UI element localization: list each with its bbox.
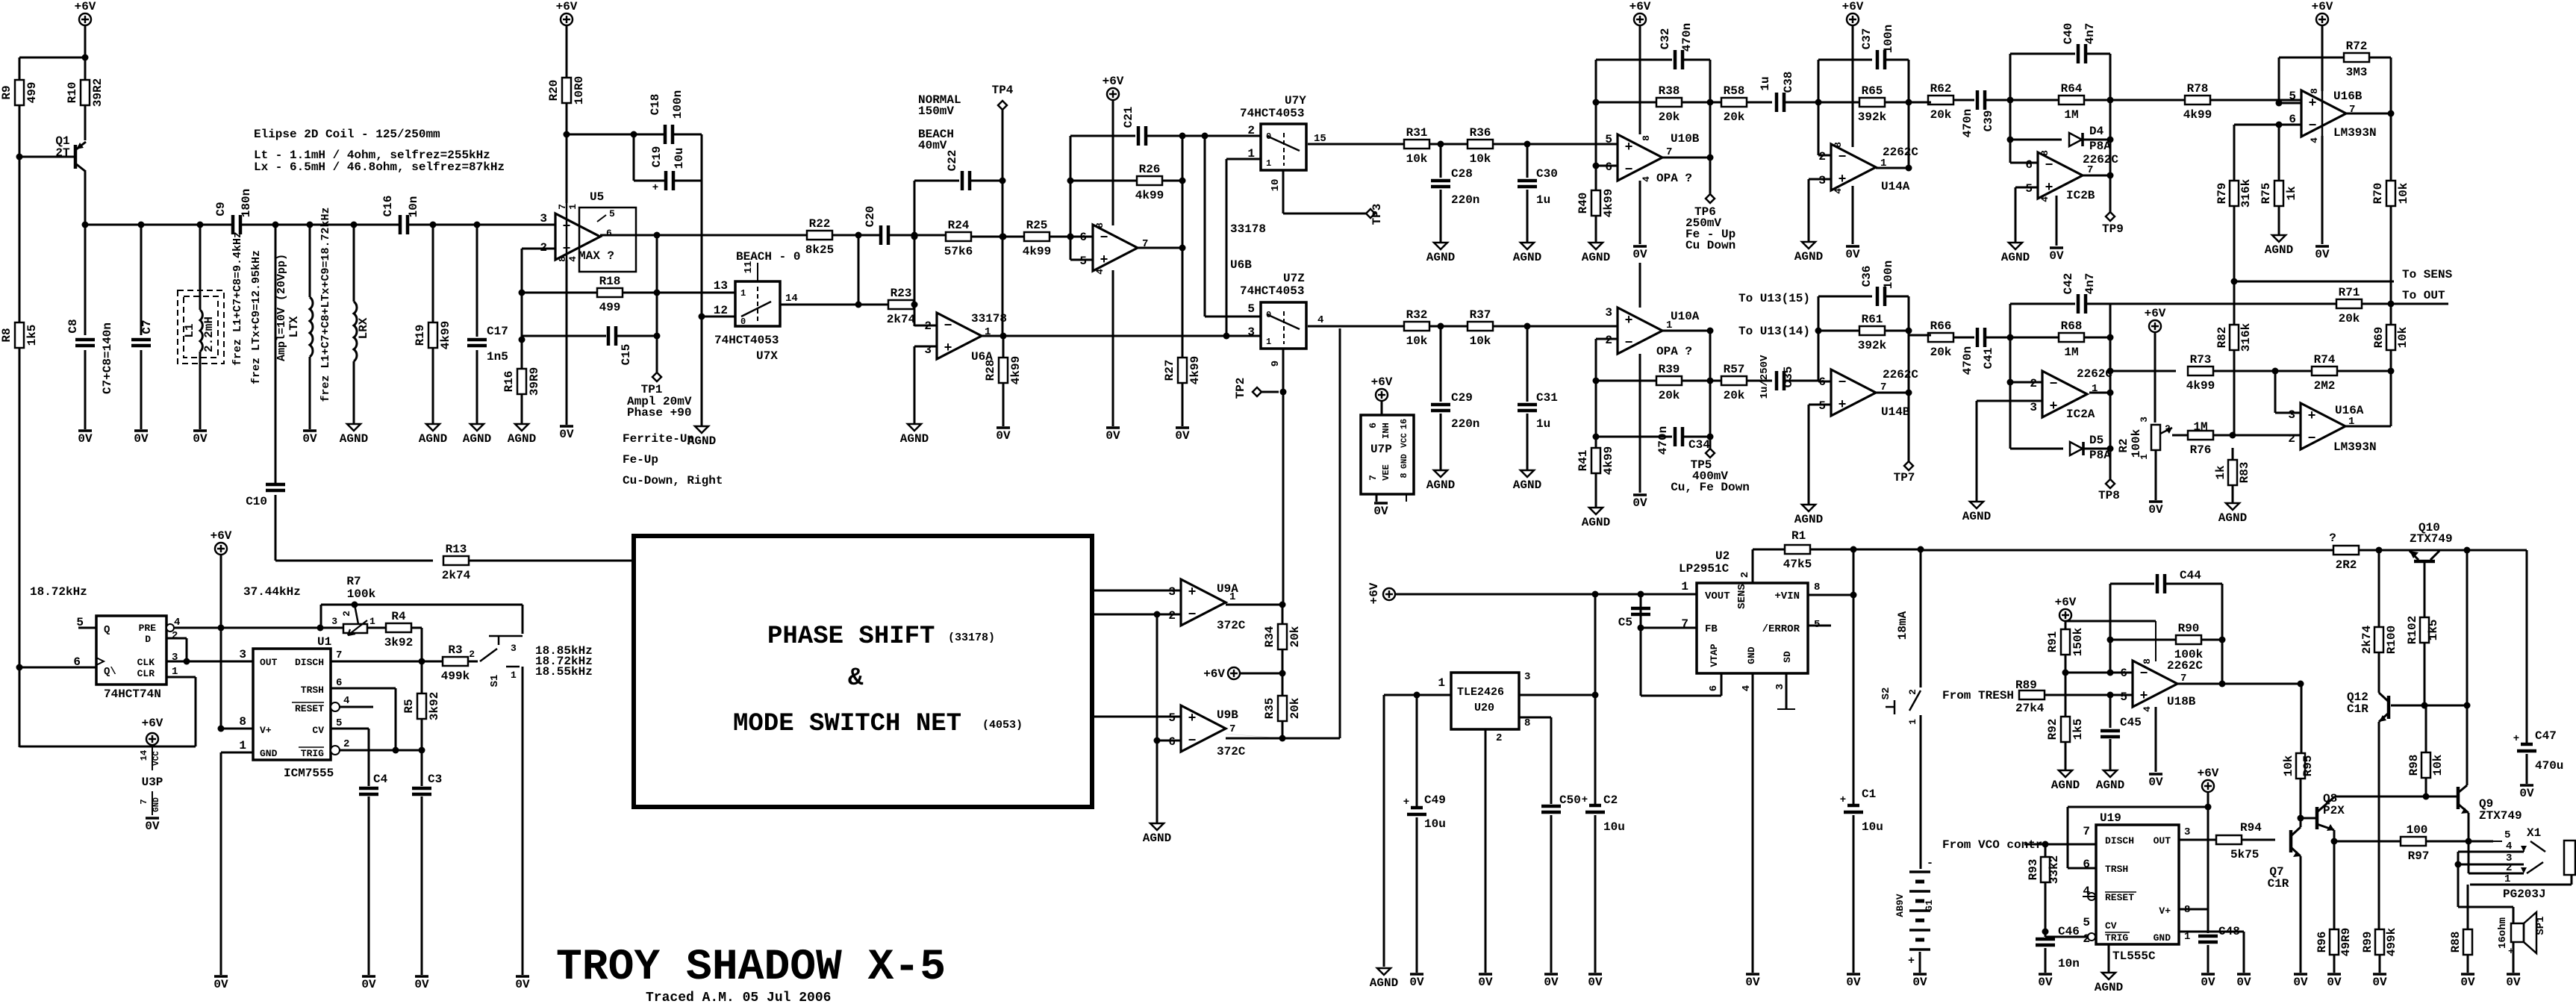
svg-text:R26: R26 (1139, 163, 1161, 176)
svg-text:470n: 470n (1961, 109, 1974, 137)
svg-text:100k: 100k (347, 587, 376, 601)
svg-text:1k5: 1k5 (2427, 620, 2440, 641)
svg-text:Ampl=10V (20Vpp): Ampl=10V (20Vpp) (275, 254, 288, 361)
svg-text:C3: C3 (428, 773, 442, 786)
svg-text:R70: R70 (2371, 183, 2385, 205)
svg-text:GND: GND (152, 797, 161, 812)
svg-text:R2: R2 (2117, 438, 2130, 452)
svg-text:0V: 0V (2148, 503, 2163, 517)
svg-text:5: 5 (2025, 182, 2033, 196)
svg-text:8: 8 (2309, 88, 2320, 94)
svg-text:1M: 1M (2064, 108, 2078, 122)
svg-text:+VIN: +VIN (1774, 590, 1800, 602)
svg-text:R102: R102 (2406, 616, 2419, 644)
svg-text:TRSH: TRSH (2105, 864, 2128, 875)
svg-text:AGND: AGND (2001, 251, 2030, 264)
svg-text:R79: R79 (2215, 183, 2229, 205)
svg-text:C5: C5 (1618, 616, 1632, 629)
svg-text:3: 3 (239, 648, 246, 661)
svg-text:AGND: AGND (1513, 251, 1541, 264)
svg-text:C31: C31 (1536, 391, 1558, 405)
svg-text:−: − (1188, 608, 1197, 623)
svg-text:5k75: 5k75 (2230, 848, 2259, 861)
svg-text:TROY SHADOW X-5: TROY SHADOW X-5 (556, 944, 946, 992)
svg-text:OPA ?: OPA ? (1656, 345, 1692, 358)
svg-text:R100: R100 (2385, 626, 2398, 654)
svg-text:R58: R58 (1724, 84, 1745, 98)
svg-text:C45: C45 (2120, 716, 2142, 729)
svg-text:3: 3 (540, 212, 547, 225)
svg-text:316k: 316k (2239, 178, 2253, 208)
svg-text:+6V: +6V (1367, 582, 1381, 604)
svg-text:U7X: U7X (756, 349, 778, 363)
svg-text:VCC: VCC (152, 751, 161, 766)
svg-text:S2: S2 (1880, 687, 1892, 700)
svg-text:+6V: +6V (556, 0, 578, 13)
svg-text:GND: GND (1746, 646, 1757, 664)
svg-text:R5: R5 (402, 699, 416, 713)
svg-text:R90: R90 (2178, 622, 2200, 635)
svg-text:R40: R40 (1577, 193, 1590, 214)
svg-text:frez L1+C7+C8=9.4kHz: frez L1+C7+C8=9.4kHz (231, 231, 244, 366)
svg-text:TRIG: TRIG (301, 748, 324, 759)
svg-text:C34: C34 (1688, 438, 1710, 452)
svg-text:GND: GND (2154, 932, 2171, 944)
svg-text:C10: C10 (246, 495, 267, 508)
svg-text:10u: 10u (673, 148, 686, 169)
svg-text:20k: 20k (1724, 389, 1745, 402)
svg-text:0V: 0V (1846, 976, 1861, 989)
svg-text:R91: R91 (2046, 632, 2059, 653)
svg-text:R20: R20 (547, 80, 561, 102)
svg-text:C18: C18 (649, 94, 662, 116)
svg-text:R61: R61 (1862, 313, 1883, 326)
svg-text:+6V: +6V (2055, 596, 2077, 609)
svg-text:+6V: +6V (1103, 75, 1124, 88)
svg-text:R35: R35 (1263, 698, 1276, 720)
svg-text:3: 3 (1247, 325, 1255, 339)
svg-text:V+: V+ (260, 725, 272, 736)
svg-text:1: 1 (1907, 719, 1918, 725)
svg-text:X1: X1 (2527, 826, 2541, 840)
svg-text:10k: 10k (1406, 152, 1428, 166)
svg-text:0V: 0V (2519, 787, 2534, 800)
svg-text:3k92: 3k92 (384, 636, 413, 649)
svg-text:6: 6 (1367, 423, 1379, 428)
svg-text:TLE2426: TLE2426 (1457, 686, 1504, 699)
svg-text:+6V: +6V (1630, 0, 1651, 13)
svg-text:1: 1 (740, 288, 746, 299)
svg-text:+: + (1840, 794, 1846, 806)
svg-text:47k5: 47k5 (1783, 558, 1812, 571)
svg-text:0V: 0V (2315, 248, 2330, 261)
svg-text:0V: 0V (213, 978, 228, 991)
svg-text:6: 6 (1708, 685, 1720, 691)
svg-text:100k: 100k (2130, 428, 2143, 458)
svg-text:−: − (2308, 431, 2316, 446)
svg-text:10k: 10k (2397, 182, 2410, 204)
svg-text:Cu-Down, Right: Cu-Down, Right (623, 474, 723, 487)
svg-text:10k: 10k (1470, 334, 1491, 348)
svg-text:5: 5 (2120, 690, 2127, 704)
svg-text:R62: R62 (1930, 82, 1952, 96)
svg-text:+6V: +6V (210, 529, 232, 543)
svg-text:R27: R27 (1163, 360, 1176, 381)
svg-text:−: − (1625, 163, 1633, 178)
svg-text:C16: C16 (381, 196, 395, 217)
svg-text:20k: 20k (1288, 626, 1302, 647)
svg-text:4: 4 (343, 695, 349, 707)
svg-text:SP1: SP1 (2535, 916, 2547, 935)
svg-text:C20: C20 (864, 206, 877, 228)
svg-text:C15: C15 (620, 344, 633, 366)
svg-text:TL555C: TL555C (2112, 950, 2156, 963)
svg-text:−: − (1839, 150, 1847, 165)
svg-text:MAX ?: MAX ? (578, 249, 614, 263)
svg-text:C36: C36 (1860, 266, 1874, 287)
svg-text:C21: C21 (1122, 107, 1135, 128)
svg-text:U14A: U14A (1881, 180, 1910, 193)
svg-text:R25: R25 (1026, 219, 1048, 232)
svg-text:U20: U20 (1474, 702, 1494, 714)
svg-text:372C: 372C (1217, 619, 1246, 632)
svg-text:8: 8 (1399, 473, 1409, 478)
svg-text:3: 3 (924, 343, 932, 357)
svg-text:2: 2 (1168, 609, 1176, 623)
svg-text:C30: C30 (1536, 167, 1558, 181)
svg-text:0V: 0V (78, 432, 93, 446)
svg-text:13: 13 (714, 279, 728, 293)
svg-text:U18B: U18B (2167, 695, 2196, 708)
svg-text:+6V: +6V (2198, 767, 2219, 780)
svg-text:3: 3 (2184, 826, 2190, 838)
svg-text:7: 7 (1229, 723, 1235, 735)
svg-text:C44: C44 (2180, 569, 2201, 582)
svg-text:8: 8 (1524, 717, 1530, 729)
svg-text:4n7: 4n7 (2083, 273, 2097, 295)
svg-text:470u: 470u (2535, 759, 2563, 773)
svg-text:DISCH: DISCH (295, 657, 324, 668)
svg-text:4: 4 (1641, 176, 1652, 182)
svg-text:R7: R7 (346, 575, 361, 588)
svg-text:8: 8 (1641, 135, 1652, 141)
svg-text:5: 5 (609, 208, 615, 219)
svg-text:10u: 10u (1424, 817, 1446, 831)
svg-text:INH: INH (1381, 423, 1391, 439)
svg-text:−: − (1625, 336, 1633, 351)
svg-text:C17: C17 (487, 325, 508, 338)
svg-text:U10A: U10A (1671, 310, 1700, 323)
svg-text:1u: 1u (1759, 76, 1772, 90)
svg-text:1: 1 (369, 616, 375, 627)
svg-text:1: 1 (1438, 676, 1445, 690)
svg-text:AGND: AGND (419, 432, 447, 446)
svg-text:5: 5 (1247, 302, 1255, 316)
svg-text:AGND: AGND (463, 432, 491, 446)
svg-text:+6V: +6V (2145, 307, 2166, 320)
svg-text:C37: C37 (1860, 28, 1874, 50)
svg-text:AGND: AGND (1370, 976, 1398, 990)
svg-text:0V: 0V (361, 978, 376, 991)
svg-text:0V: 0V (1544, 976, 1559, 989)
svg-text:R8: R8 (0, 328, 13, 342)
svg-text:−: − (1839, 375, 1847, 390)
svg-text:10k: 10k (1470, 152, 1491, 166)
svg-text:1: 1 (1266, 158, 1271, 169)
svg-text:+: + (1188, 711, 1197, 726)
svg-text:R24: R24 (948, 219, 970, 232)
svg-text:2: 2 (924, 319, 932, 333)
svg-text:392k: 392k (1858, 110, 1887, 124)
svg-text:10n: 10n (407, 196, 420, 218)
svg-text:1: 1 (2139, 454, 2150, 460)
svg-text:R97: R97 (2408, 849, 2430, 863)
svg-text:To OUT: To OUT (2402, 289, 2445, 302)
svg-text:Cu Down: Cu Down (1685, 239, 1735, 252)
svg-text:C9: C9 (214, 202, 228, 216)
svg-text:C4: C4 (373, 773, 388, 786)
svg-text:C49: C49 (1424, 793, 1446, 807)
svg-text:0: 0 (740, 317, 746, 327)
svg-text:CLR: CLR (137, 668, 155, 679)
svg-text:37.44kHz: 37.44kHz (243, 585, 301, 599)
svg-text:20k: 20k (1288, 697, 1302, 719)
svg-text:2: 2 (172, 630, 178, 642)
svg-text:33178: 33178 (971, 312, 1007, 325)
svg-text:2: 2 (469, 649, 475, 660)
svg-text:6: 6 (1168, 735, 1176, 749)
svg-text:U5: U5 (590, 190, 604, 204)
svg-text:499: 499 (599, 301, 621, 314)
svg-text:AGND: AGND (1582, 516, 1610, 529)
svg-text:4k99: 4k99 (1602, 189, 1615, 217)
svg-text:1u: 1u (1536, 193, 1550, 207)
svg-text:AGND: AGND (2218, 511, 2247, 525)
svg-text:R75: R75 (2260, 183, 2273, 205)
svg-text:R19: R19 (414, 325, 427, 346)
svg-text:1k: 1k (2214, 465, 2227, 480)
svg-text:5: 5 (1168, 711, 1176, 725)
svg-text:AGND: AGND (1794, 513, 1823, 526)
svg-text:0V: 0V (2506, 976, 2521, 989)
svg-text:2: 2 (1907, 689, 1918, 695)
svg-text:6: 6 (2025, 158, 2033, 172)
svg-text:AGND: AGND (1794, 250, 1823, 264)
svg-text:frez LTx+C9=12.95kHz: frez LTx+C9=12.95kHz (250, 250, 263, 384)
svg-text:0V: 0V (1409, 976, 1424, 989)
svg-text:R76: R76 (2190, 443, 2212, 457)
svg-text:From TRESH: From TRESH (1942, 689, 2014, 702)
svg-text:0V: 0V (996, 429, 1011, 443)
svg-text:Q\: Q\ (104, 666, 116, 678)
svg-text:0V: 0V (2038, 976, 2053, 989)
svg-text:C41: C41 (1982, 348, 1995, 370)
svg-text:R31: R31 (1406, 126, 1428, 140)
svg-text:5: 5 (2083, 916, 2090, 929)
svg-text:C1R: C1R (2268, 877, 2289, 891)
svg-text:R36: R36 (1470, 126, 1491, 140)
svg-text:0V: 0V (414, 978, 429, 991)
svg-text:C7+C8=140n: C7+C8=140n (101, 322, 114, 394)
svg-text:IC2A: IC2A (2066, 408, 2095, 421)
svg-text:39R2: 39R2 (91, 78, 105, 107)
svg-text:PG203J: PG203J (2503, 888, 2546, 901)
svg-text:2: 2 (343, 738, 349, 750)
svg-text:0V: 0V (302, 432, 317, 446)
svg-text:D5: D5 (2089, 434, 2103, 447)
svg-text:TP4: TP4 (992, 84, 1014, 97)
svg-text:100: 100 (2407, 823, 2428, 837)
svg-text:0V: 0V (145, 820, 160, 833)
svg-text:+: + (1625, 314, 1633, 328)
svg-text:74HCT4053: 74HCT4053 (1240, 284, 1304, 298)
svg-text:0V: 0V (1478, 976, 1493, 989)
svg-text:0V: 0V (2372, 976, 2387, 989)
svg-text:C40: C40 (2062, 23, 2075, 45)
svg-text:-: - (1927, 857, 1933, 870)
svg-text:0V: 0V (2327, 976, 2342, 989)
svg-text:+: + (1625, 140, 1633, 155)
svg-text:ZTX749: ZTX749 (2410, 532, 2453, 546)
svg-text:GND: GND (260, 748, 278, 759)
svg-text:4: 4 (567, 256, 578, 262)
svg-text:R1: R1 (1791, 529, 1806, 543)
svg-text:0V: 0V (1745, 976, 1760, 989)
svg-text:0V: 0V (1632, 248, 1647, 261)
svg-text:40mV: 40mV (918, 139, 947, 152)
svg-text:P2X: P2X (2323, 804, 2345, 817)
svg-text:3: 3 (331, 616, 337, 627)
svg-text:R57: R57 (1724, 363, 1745, 376)
svg-text:C38: C38 (1782, 72, 1795, 93)
svg-text:2k74: 2k74 (442, 569, 471, 582)
svg-text:R37: R37 (1470, 308, 1491, 322)
svg-text:R72: R72 (2346, 40, 2368, 53)
svg-text:U6B: U6B (1230, 258, 1252, 272)
svg-text:8: 8 (2039, 150, 2050, 156)
svg-text:150mV: 150mV (918, 105, 954, 118)
svg-text:2262C: 2262C (1883, 368, 1918, 381)
svg-text:C35: C35 (1782, 367, 1795, 388)
svg-text:TRIG: TRIG (2105, 932, 2128, 944)
svg-text:+: + (2308, 409, 2316, 424)
svg-text:499k: 499k (2385, 927, 2398, 956)
svg-text:C2: C2 (1603, 793, 1618, 807)
svg-text:1M: 1M (2064, 346, 2078, 359)
svg-text:R98: R98 (2407, 755, 2421, 776)
svg-text:8k25: 8k25 (805, 243, 834, 257)
svg-text:+: + (2045, 181, 2053, 196)
svg-text:3: 3 (2139, 417, 2150, 423)
svg-text:150k: 150k (2071, 627, 2085, 656)
svg-text:3: 3 (511, 643, 517, 654)
svg-text:TP8: TP8 (2098, 489, 2120, 502)
svg-text:10u: 10u (1862, 820, 1883, 834)
svg-text:33178: 33178 (1230, 222, 1266, 236)
svg-text:R64: R64 (2061, 82, 2083, 96)
svg-text:220n: 220n (1451, 417, 1479, 431)
svg-text:+6V: +6V (1203, 667, 1225, 681)
svg-text:ICM7555: ICM7555 (284, 767, 334, 780)
svg-text:10k: 10k (2396, 326, 2410, 348)
svg-text:R65: R65 (1862, 84, 1883, 98)
svg-text:1: 1 (1247, 147, 1255, 160)
svg-text:5: 5 (2504, 829, 2510, 841)
svg-text:Fe-Up: Fe-Up (623, 453, 658, 467)
svg-text:0V: 0V (2201, 976, 2215, 989)
svg-text:8: 8 (1833, 142, 1844, 148)
svg-text:20k: 20k (1930, 108, 1952, 122)
svg-text:4k99: 4k99 (1135, 189, 1164, 202)
svg-text:4k99: 4k99 (1023, 245, 1051, 258)
svg-text:0V: 0V (1175, 429, 1190, 443)
svg-text:−: − (2140, 667, 2148, 682)
svg-text:R78: R78 (2187, 82, 2209, 96)
svg-text:33k2: 33k2 (2048, 855, 2061, 884)
svg-text:R89: R89 (2015, 679, 2037, 692)
svg-text:R94: R94 (2240, 821, 2262, 835)
svg-text:C50: C50 (1559, 793, 1581, 807)
svg-text:R95: R95 (2301, 755, 2315, 777)
svg-text:C32: C32 (1659, 28, 1672, 50)
svg-text:AGND: AGND (508, 432, 536, 446)
svg-text:5: 5 (1818, 399, 1826, 413)
svg-text:AGND: AGND (1426, 478, 1455, 492)
svg-text:R82: R82 (2215, 327, 2229, 349)
svg-text:12: 12 (714, 304, 728, 317)
svg-text:+: + (1582, 794, 1588, 806)
svg-text:+: + (1403, 796, 1409, 808)
svg-text:AGND: AGND (2095, 981, 2123, 994)
svg-text:10R0: 10R0 (573, 76, 586, 105)
svg-text:R92: R92 (2046, 719, 2059, 740)
svg-text:372C: 372C (1217, 745, 1246, 758)
svg-text:U19: U19 (2100, 811, 2121, 825)
svg-text:+: + (1100, 253, 1108, 268)
svg-text:U7Y: U7Y (1285, 94, 1306, 107)
svg-text:8: 8 (1094, 222, 1105, 228)
svg-text:2: 2 (2165, 423, 2171, 434)
svg-text:ZTX749: ZTX749 (2479, 809, 2522, 823)
svg-text:D4: D4 (2089, 125, 2104, 138)
svg-text:8: 8 (2142, 658, 2153, 664)
svg-text:2.2mH: 2.2mH (202, 317, 216, 352)
svg-text:AGND: AGND (1143, 832, 1171, 845)
svg-text:R74: R74 (2314, 353, 2336, 367)
svg-text:R93: R93 (2027, 859, 2040, 881)
svg-text:1k5: 1k5 (25, 325, 39, 346)
svg-text:?: ? (2329, 531, 2336, 545)
svg-text:AB9V: AB9V (1894, 894, 1906, 917)
svg-text:7: 7 (1367, 475, 1379, 481)
svg-text:0V: 0V (1912, 976, 1927, 989)
svg-text:470n: 470n (1961, 346, 1974, 375)
svg-text:2R2: 2R2 (2336, 558, 2357, 572)
svg-text:R66: R66 (1930, 319, 1952, 333)
svg-text:1M: 1M (2193, 420, 2207, 434)
svg-text:100n: 100n (1882, 261, 1895, 289)
svg-text:1: 1 (567, 204, 578, 210)
svg-text:C39: C39 (1982, 110, 1995, 132)
svg-text:1: 1 (511, 670, 517, 681)
svg-text:2262C: 2262C (2167, 659, 2203, 673)
svg-text:10u: 10u (1603, 820, 1625, 834)
svg-text:2: 2 (1496, 732, 1502, 744)
svg-text:470n: 470n (1656, 426, 1670, 455)
svg-text:L1: L1 (183, 323, 196, 337)
svg-text:14: 14 (139, 750, 149, 761)
svg-text:6: 6 (1605, 160, 1612, 174)
